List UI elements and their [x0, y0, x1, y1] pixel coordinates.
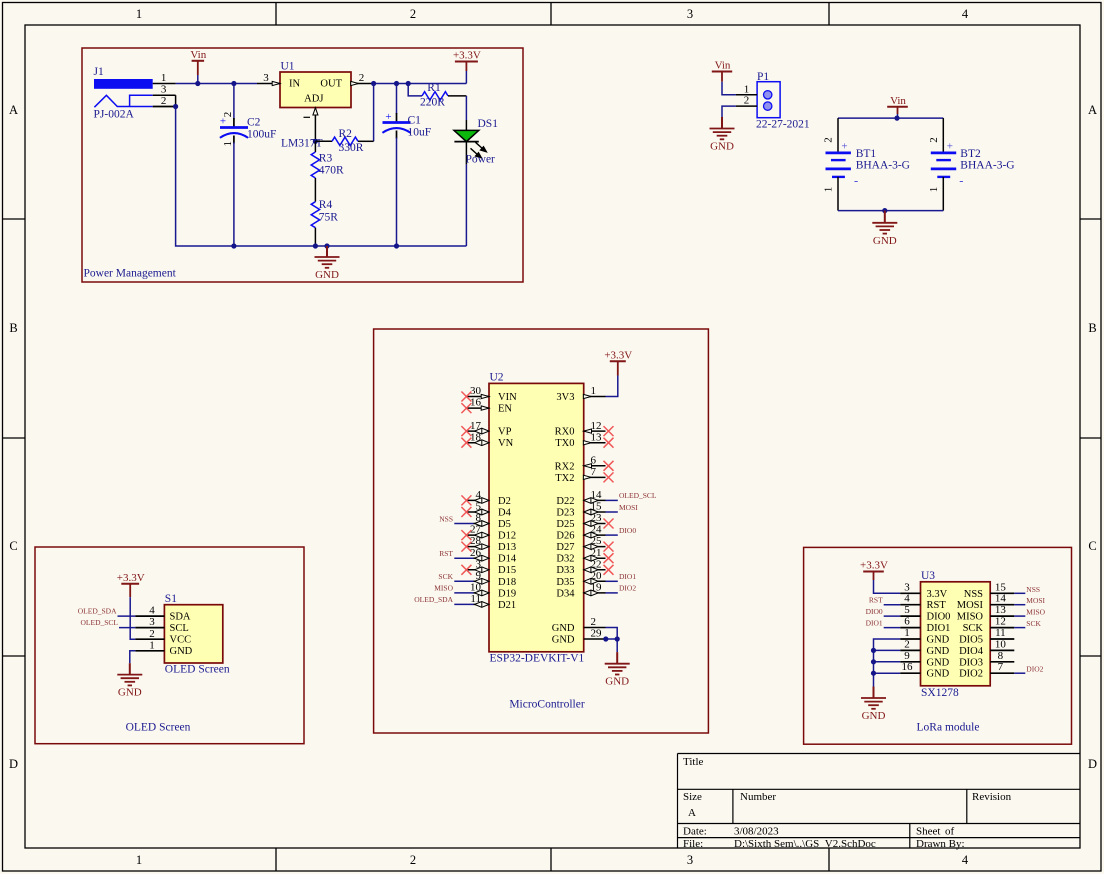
svg-text:GND: GND — [552, 623, 575, 634]
ground GND (power management) — [315, 246, 340, 268]
wire net OLED_SCL — [119, 627, 135, 629]
svg-text:15: 15 — [995, 581, 1007, 593]
U1 pin 1 ADJ — [304, 108, 318, 142]
svg-text:470R: 470R — [319, 165, 344, 177]
C2 designator and value — [247, 117, 276, 141]
wire U3 GND bus — [874, 639, 901, 687]
U2 pin 6 RX2 — [555, 454, 614, 472]
P1 pin 1 — [736, 83, 757, 95]
J1 pin 3 — [153, 84, 176, 96]
svg-text:3: 3 — [687, 853, 693, 867]
S1 label OLED Screen — [165, 664, 230, 676]
svg-text:22-27-2021: 22-27-2021 — [756, 119, 810, 131]
connector P1 body — [757, 82, 780, 118]
wire net DIO2 — [1014, 672, 1025, 674]
net label OLED_SDA — [414, 595, 453, 604]
svg-text:2: 2 — [928, 137, 940, 143]
svg-text:3.3V: 3.3V — [927, 589, 948, 600]
battery BT1 plates — [826, 153, 851, 177]
MicroController label — [509, 699, 585, 711]
wire Vin stem — [197, 75, 199, 84]
svg-text:D22: D22 — [556, 496, 574, 507]
net label MISO — [1026, 608, 1045, 617]
junction C2 bottom — [231, 243, 236, 248]
svg-text:-: - — [854, 174, 858, 188]
wire net NSS — [454, 523, 473, 525]
wire +3.3V to U3 — [874, 580, 901, 593]
U2 pin 23 D25 — [556, 512, 613, 530]
svg-text:SDA: SDA — [170, 612, 191, 623]
svg-text:U1: U1 — [281, 61, 295, 73]
U2 pin 19 D34 — [556, 582, 605, 600]
svg-text:VIN: VIN — [498, 392, 517, 403]
U2 pin 11 D21 — [470, 593, 516, 611]
svg-text:C1: C1 — [408, 115, 422, 127]
svg-text:1: 1 — [149, 639, 155, 651]
wire J1 to ground rail — [176, 107, 467, 247]
svg-text:GND: GND — [315, 269, 339, 281]
svg-text:U3: U3 — [921, 570, 935, 582]
svg-text:DIO2: DIO2 — [959, 669, 983, 680]
junction U2 GND a — [603, 636, 608, 641]
battery BT1 designator and value — [856, 148, 910, 172]
net label OLED_SCL — [81, 618, 119, 627]
wire LED to ground rail — [465, 164, 467, 246]
U3 pin 1 GND — [900, 627, 949, 646]
svg-text:A: A — [688, 807, 696, 819]
net label NSS — [439, 514, 453, 523]
svg-text:TX2: TX2 — [555, 473, 574, 484]
S1 pin 4 SDA — [135, 605, 191, 623]
J1 pin 1 — [153, 72, 176, 84]
U2 pin 27 D12 — [461, 524, 516, 542]
svg-text:OLED Screen: OLED Screen — [165, 664, 230, 676]
svg-text:2: 2 — [149, 628, 155, 640]
svg-text:of: of — [945, 826, 955, 838]
svg-text:OLED_SCL: OLED_SCL — [81, 618, 119, 627]
DS1 designator — [478, 118, 499, 130]
microcontroller U2 designator — [490, 372, 504, 384]
P1 value 22-27-2021 — [756, 119, 810, 131]
svg-text:SCK: SCK — [1026, 619, 1041, 628]
svg-text:DIO1: DIO1 — [927, 623, 951, 634]
svg-text:2: 2 — [591, 616, 597, 628]
svg-text:10uF: 10uF — [408, 127, 432, 139]
svg-text:DIO0: DIO0 — [866, 607, 883, 616]
junction battery top rail — [894, 116, 899, 121]
power port Vin (battery) — [887, 95, 908, 114]
wire net OLED_SDA — [118, 615, 136, 617]
svg-text:75R: 75R — [319, 212, 339, 224]
U2 pin 12 RX0 — [555, 420, 614, 438]
svg-text:5: 5 — [904, 604, 910, 616]
svg-text:D33: D33 — [556, 565, 574, 576]
ground label GND (U2) — [605, 676, 629, 688]
svg-text:1: 1 — [928, 187, 940, 193]
svg-text:D13: D13 — [498, 542, 516, 553]
U3 pin 11 DIO5 — [959, 627, 1014, 646]
svg-text:13: 13 — [995, 604, 1007, 616]
svg-text:D35: D35 — [556, 577, 574, 588]
svg-text:MOSI: MOSI — [957, 600, 984, 611]
junction Vin node — [195, 81, 200, 86]
power port +3.3V (power management) — [453, 50, 481, 72]
svg-text:D21: D21 — [498, 600, 516, 611]
P1 pin 2 — [736, 95, 757, 107]
svg-text:2: 2 — [904, 638, 910, 650]
junction GND stem — [324, 243, 329, 248]
svg-text:7: 7 — [591, 466, 597, 478]
net label SCK — [438, 572, 453, 581]
U2 pin 5 D4 — [461, 501, 511, 519]
svg-text:9: 9 — [904, 650, 910, 662]
U2 pin 20 D35 — [556, 570, 605, 588]
net label DIO0 — [619, 526, 636, 535]
svg-text:3: 3 — [149, 616, 155, 628]
junction C1 top — [394, 81, 399, 86]
J1 pin 2 — [153, 95, 176, 107]
svg-text:OLED_SCL: OLED_SCL — [619, 491, 657, 500]
svg-text:GND: GND — [873, 235, 897, 247]
resistor R4 — [311, 199, 338, 246]
wire J1 pin3 to pin2 — [175, 95, 177, 106]
svg-text:8: 8 — [998, 650, 1004, 662]
svg-text:16: 16 — [470, 397, 482, 409]
svg-text:1: 1 — [904, 627, 910, 639]
junction U3 GND 9 — [871, 659, 876, 664]
svg-text:B: B — [1088, 321, 1096, 335]
svg-text:2: 2 — [222, 112, 234, 118]
svg-text:DIO0: DIO0 — [619, 526, 636, 535]
U2 pin 16 EN — [461, 397, 512, 415]
svg-text:PJ-002A: PJ-002A — [94, 109, 135, 121]
net label MISO — [434, 584, 453, 593]
svg-text:J1: J1 — [94, 66, 104, 78]
wire C1 top — [396, 84, 398, 115]
svg-text:DS1: DS1 — [478, 118, 499, 130]
oled S1 body — [164, 605, 222, 663]
svg-text:+3.3V: +3.3V — [604, 349, 632, 361]
resistor R3 — [311, 141, 344, 201]
U2 pin 25 D27 — [556, 535, 613, 553]
svg-text:OLED_SDA: OLED_SDA — [78, 607, 117, 616]
wire net DIO0 — [884, 615, 901, 617]
wire 3V3 to +3.3V — [606, 376, 618, 397]
wire net OLED_SCL — [606, 499, 618, 501]
U3 pin 13 MISO — [957, 604, 1015, 623]
U2 pin 3 D15 — [461, 558, 516, 576]
ground GND (LoRa) — [861, 687, 886, 709]
svg-text:4: 4 — [962, 853, 969, 867]
svg-text:Power Management: Power Management — [84, 268, 177, 280]
ground label GND (battery) — [873, 235, 897, 247]
connector J1 spring contact — [94, 95, 152, 107]
battery BT2 pin 2 — [928, 118, 944, 153]
svg-text:12: 12 — [591, 420, 602, 432]
net label OLED_SDA — [78, 607, 117, 616]
svg-text:DIO4: DIO4 — [959, 646, 984, 657]
svg-text:D25: D25 — [556, 519, 574, 530]
svg-text:Power: Power — [466, 154, 496, 166]
svg-text:VCC: VCC — [170, 635, 192, 646]
ground label GND (P1) — [710, 141, 734, 153]
svg-text:Drawn By:: Drawn By: — [916, 838, 965, 850]
battery BT2 plates — [931, 153, 956, 177]
OLED Screen section label — [126, 722, 191, 734]
capacitor C1 — [382, 111, 410, 139]
svg-text:SCK: SCK — [438, 572, 453, 581]
svg-text:MOSI: MOSI — [619, 503, 638, 512]
svg-text:7: 7 — [998, 661, 1004, 673]
svg-text:Vin: Vin — [190, 49, 206, 61]
junction U3 GND 2 — [871, 648, 876, 653]
wire U2 GND pins — [606, 628, 618, 653]
LoRa module section box — [804, 547, 1072, 744]
svg-text:Sheet: Sheet — [916, 826, 940, 838]
U2 pin 22 D33 — [556, 558, 613, 576]
svg-text:BT2: BT2 — [960, 148, 981, 160]
svg-text:3V3: 3V3 — [556, 392, 574, 403]
battery BT2 designator and value — [960, 148, 1014, 172]
microcontroller U2 body — [489, 383, 584, 651]
U3 pin 14 MOSI — [957, 593, 1015, 612]
wire Vin to P1 pin1 — [722, 82, 736, 95]
svg-text:LoRa module: LoRa module — [917, 722, 980, 734]
svg-text:GND: GND — [927, 635, 950, 646]
net label DIO0 — [866, 607, 883, 616]
svg-text:SCK: SCK — [963, 623, 984, 634]
junction battery bottom rail — [882, 208, 887, 213]
svg-text:330R: 330R — [339, 142, 364, 154]
power port +3.3V (LoRa) — [860, 560, 888, 581]
wire net RST — [454, 557, 473, 559]
svg-text:+3.3V: +3.3V — [117, 572, 145, 584]
connector P1 designator — [757, 71, 769, 83]
battery BT1 polarity marks — [841, 141, 858, 188]
svg-text:Size: Size — [683, 791, 702, 803]
svg-text:DIO1: DIO1 — [866, 619, 883, 628]
wire net MOSI — [606, 511, 618, 513]
battery BT1 pin 2 — [823, 118, 839, 153]
wire C2 bottom — [233, 143, 235, 247]
U2 pin 1 3V3 — [556, 385, 605, 403]
svg-text:D:\Sixth Sem\..\GS_V2.SchDoc: D:\Sixth Sem\..\GS_V2.SchDoc — [734, 838, 876, 850]
svg-text:MicroController: MicroController — [509, 699, 585, 711]
U3 pin 12 SCK — [963, 616, 1015, 635]
junction J1 pins 2-3 — [173, 104, 178, 109]
DS1 Power label — [466, 154, 496, 166]
svg-text:6: 6 — [904, 616, 910, 628]
Power Management section box — [82, 48, 523, 282]
power port Vin (power management) — [190, 49, 206, 75]
S1 pin 2 VCC — [135, 628, 191, 646]
junction R4 bottom — [313, 243, 318, 248]
svg-text:D: D — [1088, 757, 1097, 771]
svg-text:D14: D14 — [498, 554, 517, 565]
svg-text:D23: D23 — [556, 508, 574, 519]
svg-text:4: 4 — [149, 605, 155, 617]
svg-text:VP: VP — [498, 427, 512, 438]
svg-text:1: 1 — [161, 72, 167, 84]
battery BT1 pin 1 — [823, 177, 839, 211]
svg-text:D15: D15 — [498, 565, 516, 576]
svg-text:OLED Screen: OLED Screen — [126, 722, 191, 734]
U2 pin 8 D5 — [474, 512, 511, 530]
svg-text:D19: D19 — [498, 588, 516, 599]
wire P1 pin2 to GND — [722, 106, 736, 117]
svg-text:GND: GND — [118, 687, 142, 699]
svg-text:13: 13 — [591, 431, 603, 443]
wire OUT rail — [374, 83, 467, 85]
wire C2 top — [233, 84, 235, 120]
capacitor C2 — [220, 112, 248, 147]
svg-text:+3.3V: +3.3V — [453, 50, 481, 62]
net label MOSI — [619, 503, 638, 512]
regulator U1 body — [280, 72, 351, 108]
svg-text:D2: D2 — [498, 496, 511, 507]
oled S1 designator — [165, 593, 177, 605]
svg-text:RX0: RX0 — [555, 427, 575, 438]
svg-text:RST: RST — [439, 549, 453, 558]
svg-text:OUT: OUT — [320, 79, 342, 90]
svg-text:2: 2 — [161, 95, 167, 107]
net label RST — [869, 596, 883, 605]
svg-text:ESP32-DEVKIT-V1: ESP32-DEVKIT-V1 — [490, 653, 585, 665]
svg-text:1: 1 — [744, 83, 750, 95]
ground GND (battery) — [872, 211, 897, 234]
net label OLED_SCL — [619, 491, 657, 500]
svg-text:DIO1: DIO1 — [619, 572, 636, 581]
U1 value LM317T — [281, 138, 323, 150]
junction C1 bottom — [394, 243, 399, 248]
svg-text:MISO: MISO — [434, 584, 453, 593]
svg-text:BHAA-3-G: BHAA-3-G — [960, 160, 1014, 172]
wire net SCK — [1014, 627, 1025, 629]
svg-text:D4: D4 — [498, 508, 512, 519]
wire +3.3V drop — [465, 71, 467, 84]
U2 pin 28 D13 — [461, 535, 516, 553]
svg-text:1: 1 — [136, 853, 142, 867]
svg-text:GND: GND — [862, 710, 886, 722]
svg-text:+3.3V: +3.3V — [860, 560, 888, 572]
wire net DIO1 — [606, 580, 618, 582]
ground GND (P1) — [710, 117, 735, 139]
junction C2 top — [231, 81, 236, 86]
lora U3 body — [921, 582, 991, 686]
U2 pin 26 D14 — [470, 547, 517, 565]
power port +3.3V (OLED) — [117, 572, 145, 597]
svg-text:C: C — [1088, 539, 1096, 553]
ground GND (OLED) — [117, 663, 142, 685]
wire J1 pin1 to U1 IN — [176, 83, 257, 85]
svg-text:DIO0: DIO0 — [927, 612, 951, 623]
wire net MISO — [1014, 615, 1025, 617]
svg-text:GND: GND — [605, 676, 629, 688]
wire battery Vin stem — [897, 114, 899, 118]
U3 pin 16 GND — [900, 661, 949, 680]
svg-text:RX2: RX2 — [555, 461, 575, 472]
U3 pin 9 GND — [900, 650, 949, 669]
svg-text:GND: GND — [170, 646, 193, 657]
LoRa module section label — [917, 722, 980, 734]
U2 pin 7 TX2 — [555, 466, 613, 484]
U3 pin 10 DIO4 — [959, 638, 1014, 657]
svg-text:3: 3 — [904, 581, 910, 593]
U2 pin 21 D32 — [556, 547, 613, 565]
U1 pin 2 OUT — [351, 72, 374, 86]
svg-text:30: 30 — [470, 385, 482, 397]
wire R1 to LED — [465, 96, 467, 130]
svg-text:S1: S1 — [165, 593, 177, 605]
svg-text:GND: GND — [552, 635, 575, 646]
U1 pin 3 IN — [257, 72, 280, 86]
U3 pin 3 3.3V — [900, 581, 947, 600]
ground label GND (LoRa) — [862, 710, 886, 722]
svg-text:2: 2 — [410, 853, 416, 867]
svg-text:C: C — [9, 539, 17, 553]
svg-text:1: 1 — [222, 141, 234, 147]
junction OUT / R2 — [371, 81, 376, 86]
wire R2 feedback — [373, 84, 375, 142]
svg-text:12: 12 — [995, 616, 1006, 628]
svg-text:D27: D27 — [556, 542, 574, 553]
wire net SCK — [454, 580, 473, 582]
U2 pin 2 GND — [552, 616, 606, 634]
svg-text:NSS: NSS — [439, 514, 453, 523]
U3 pin 8 DIO3 — [959, 650, 1014, 669]
svg-text:4: 4 — [962, 7, 969, 21]
net label MOSI — [1026, 596, 1045, 605]
svg-text:3: 3 — [687, 7, 693, 21]
wire net DIO2 — [606, 592, 618, 594]
svg-text:BT1: BT1 — [856, 148, 877, 160]
U2 pin 17 VP — [461, 420, 511, 438]
svg-text:MISO: MISO — [1026, 608, 1045, 617]
svg-text:DIO2: DIO2 — [619, 584, 636, 593]
svg-text:ADJ: ADJ — [304, 93, 323, 104]
power port Vin (P1) — [712, 60, 732, 82]
svg-text:RST: RST — [927, 600, 947, 611]
DS1 light arrows — [471, 142, 487, 157]
svg-text:2: 2 — [410, 7, 416, 21]
net label DIO2 — [619, 584, 636, 593]
svg-text:Date:: Date: — [683, 826, 707, 838]
svg-text:EN: EN — [498, 404, 512, 415]
svg-text:2: 2 — [744, 95, 750, 107]
svg-text:3/08/2023: 3/08/2023 — [734, 826, 779, 838]
svg-text:Number: Number — [740, 791, 776, 803]
U3 value SX1278 — [921, 687, 959, 699]
U2 pin 10 D19 — [470, 582, 516, 600]
svg-text:NSS: NSS — [964, 589, 983, 600]
junction U3 GND 16 — [871, 671, 876, 676]
svg-text:2: 2 — [359, 72, 365, 84]
title block grid — [678, 754, 1081, 849]
net label DIO1 — [866, 619, 883, 628]
svg-text:R3: R3 — [319, 153, 333, 165]
svg-text:TX0: TX0 — [555, 438, 574, 449]
ground GND (U2) — [605, 652, 630, 674]
svg-text:1: 1 — [591, 385, 597, 397]
S1 pin 3 SCL — [135, 616, 188, 634]
svg-text:D12: D12 — [498, 531, 516, 542]
svg-text:+: + — [947, 141, 953, 153]
wire net OLED_SDA — [454, 603, 473, 605]
svg-text:Title: Title — [683, 756, 704, 768]
U2 pin 13 TX0 — [555, 431, 613, 449]
wire C1 bottom — [396, 138, 398, 247]
wire +3.3V to S1 VCC — [130, 597, 135, 639]
